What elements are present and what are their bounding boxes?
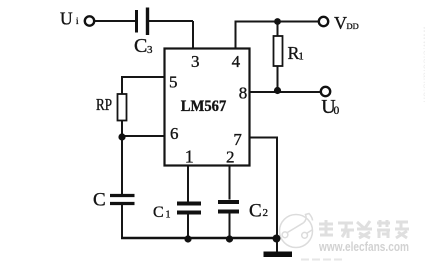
svg-text:2: 2	[263, 207, 269, 219]
svg-text:1: 1	[299, 52, 304, 63]
svg-text:DD: DD	[347, 21, 359, 31]
svg-text:www.elecfans.com: www.elecfans.com	[318, 239, 409, 254]
svg-text:0: 0	[334, 105, 340, 117]
svg-text:C: C	[93, 189, 106, 210]
svg-text:C: C	[249, 201, 262, 222]
svg-text:3: 3	[191, 52, 200, 71]
svg-text:6: 6	[170, 124, 179, 143]
svg-text:5: 5	[169, 73, 178, 92]
svg-text:C: C	[134, 35, 147, 57]
svg-text:www.elecfans.cn: www.elecfans.cn	[421, 25, 425, 103]
svg-text:U: U	[60, 9, 73, 29]
svg-text:V: V	[334, 13, 347, 33]
svg-text:RP: RP	[96, 95, 112, 114]
svg-text:1: 1	[166, 210, 171, 221]
svg-text:4: 4	[232, 52, 241, 71]
svg-text:2: 2	[226, 148, 235, 167]
svg-text:LM567: LM567	[181, 98, 227, 115]
svg-text:8: 8	[239, 84, 248, 103]
svg-text:7: 7	[233, 130, 242, 149]
svg-text:3: 3	[147, 44, 153, 56]
svg-text:C: C	[153, 204, 164, 221]
svg-text:1: 1	[185, 147, 194, 167]
